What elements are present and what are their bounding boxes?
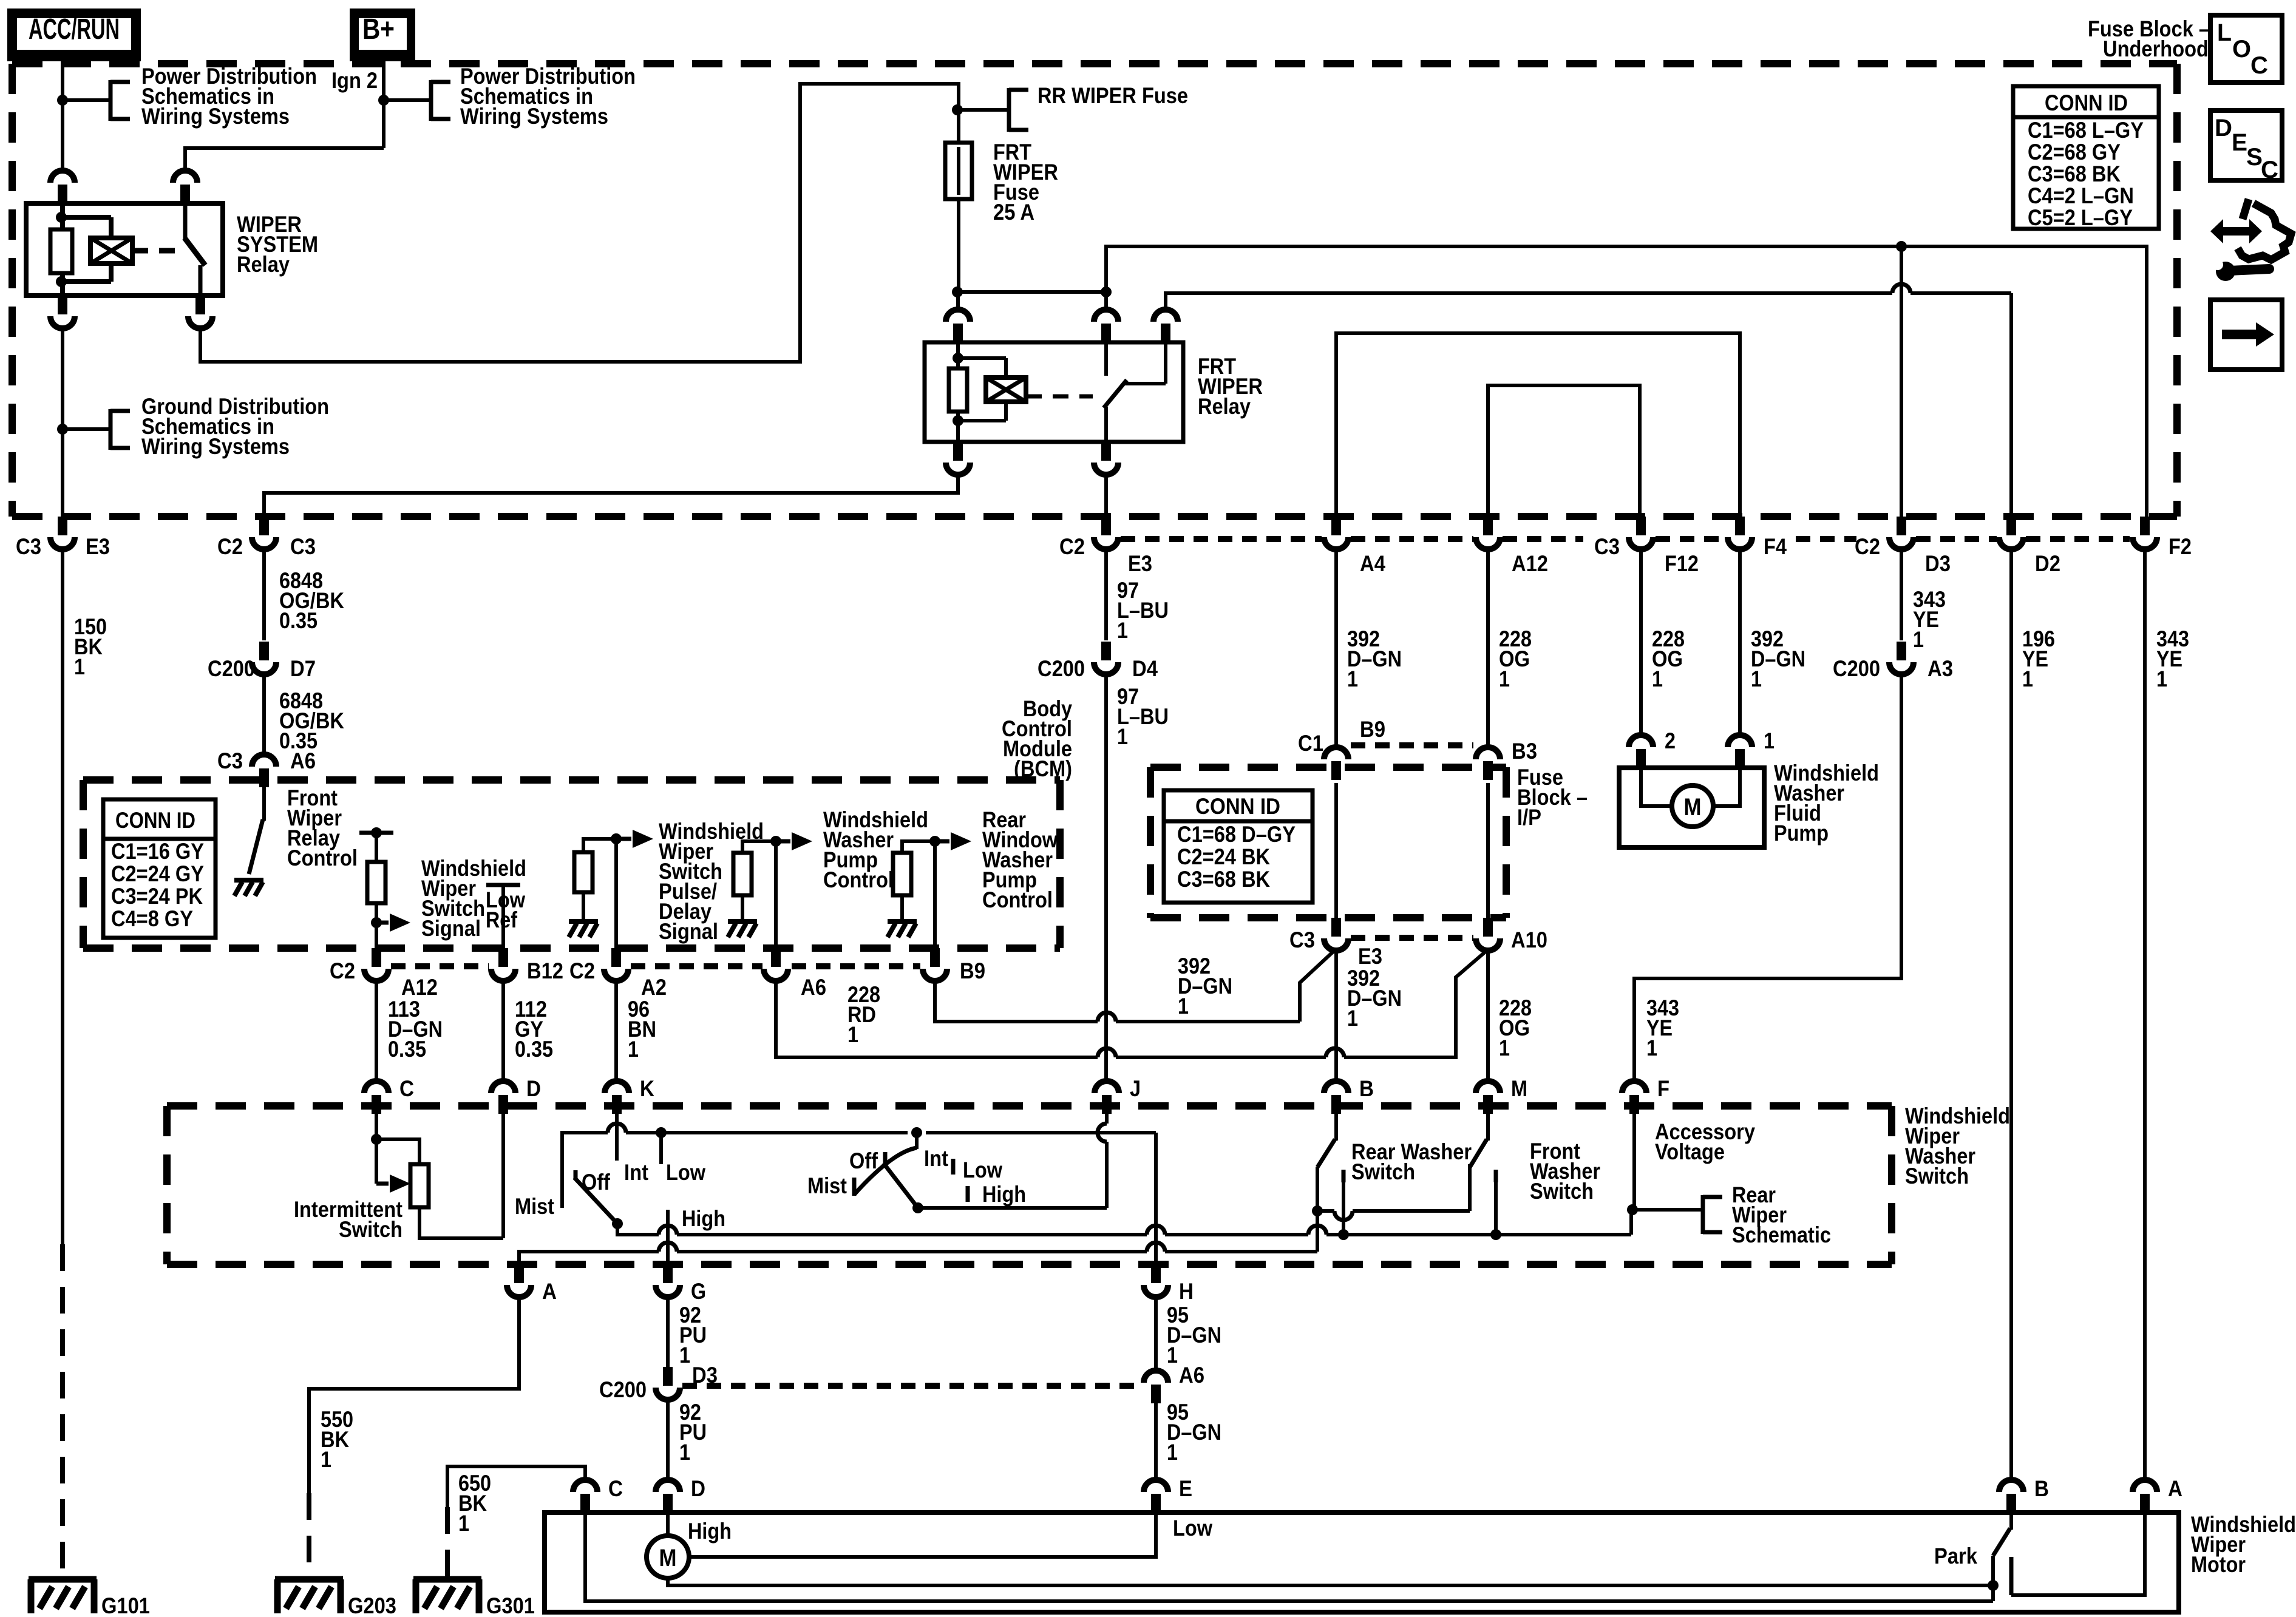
contact High right group — [966, 1186, 970, 1202]
svg-text:G101: G101 — [101, 1593, 150, 1617]
relay FRT WIPER Relay box — [925, 342, 1183, 442]
wire tap to RR WIPER bracket — [957, 108, 1009, 112]
label C3 at BCM entry — [217, 748, 243, 773]
dashed actuator link WIPER SYSTEM relay — [132, 248, 180, 254]
svg-text:C4=8 GY: C4=8 GY — [111, 906, 193, 931]
label C3 right — [290, 534, 316, 559]
wire hop railA over High — [659, 1242, 677, 1252]
node ground distribution tap — [57, 424, 68, 435]
label 343 YE 1 at F riser — [1646, 995, 1679, 1060]
label 97 L-BU 1 upper — [1117, 578, 1169, 643]
svg-text:A6: A6 — [801, 975, 826, 1000]
label B9 at IP — [1360, 717, 1385, 742]
ground G301 — [413, 1579, 481, 1613]
connector C motor — [573, 1480, 597, 1513]
wire F accessory voltage drop — [1632, 1114, 1636, 1208]
connector M wiper switch — [1476, 1081, 1500, 1114]
switch Front Washer Switch — [1470, 1114, 1488, 1167]
svg-text:Signal: Signal — [421, 916, 481, 941]
arrow intermittent wiper arm — [376, 1175, 410, 1193]
wire Ign2 to relay coil pin — [185, 148, 384, 169]
wire B3 through IP — [1486, 783, 1490, 918]
connector pin FRT WIPER relay output — [1094, 442, 1118, 477]
wire relay ground drop — [61, 331, 64, 517]
svg-text:1: 1 — [847, 1022, 858, 1047]
wire A to park contact — [2011, 1513, 2145, 1595]
label pin 1 — [1764, 728, 1775, 753]
dotted row line F4-C2D3 — [1796, 536, 1856, 542]
svg-text:D3: D3 — [1925, 551, 1951, 576]
label E3 at IP out — [1358, 944, 1382, 969]
wire A2 to pulse tap — [614, 839, 618, 962]
label E3 — [86, 534, 110, 559]
svg-text:E3: E3 — [1358, 944, 1382, 969]
label WIPER SYSTEM Relay — [237, 212, 318, 277]
svg-text:C1=68 L–GY: C1=68 L–GY — [2028, 118, 2144, 143]
svg-text:High: High — [682, 1206, 725, 1231]
connector C2/A12 BCM — [364, 948, 389, 983]
wire B9 to rear washer tap — [933, 841, 937, 962]
label C200 at D3 lower — [599, 1377, 647, 1402]
contact front washer fixed — [1494, 1170, 1498, 1235]
dashed actuator link FRT WIPER relay — [1026, 395, 1093, 399]
connector A12 — [1476, 517, 1500, 552]
label 228 RD 1 — [847, 982, 880, 1047]
reference bracket Ground Distribution — [110, 409, 130, 450]
label B9 BCM out — [960, 958, 985, 983]
svg-text:Pump: Pump — [1774, 821, 1829, 846]
wire fuse output to relay common — [957, 290, 1106, 294]
svg-text:B9: B9 — [1360, 717, 1385, 742]
svg-text:Mist: Mist — [807, 1173, 847, 1198]
svg-text:E3: E3 — [1128, 551, 1152, 576]
label Front Wiper Relay Control — [287, 785, 358, 870]
wire High contact left group — [666, 1210, 670, 1264]
svg-text:1: 1 — [2156, 666, 2167, 691]
svg-text:H: H — [1179, 1279, 1194, 1304]
wire 97 L-BU upper — [1104, 552, 1108, 640]
svg-text:D: D — [691, 1476, 705, 1501]
wire tap to ground bracket — [63, 427, 110, 431]
label 550 BK 1 — [321, 1407, 353, 1472]
wire fuse output — [957, 199, 960, 292]
wire Low contact left group — [659, 1133, 663, 1164]
wire tap to bracket right — [384, 98, 431, 102]
svg-text:A3: A3 — [1927, 656, 1953, 681]
connector C200/A3 — [1889, 642, 1914, 677]
label C3 left of E3 — [16, 534, 41, 559]
label Rear Washer Switch — [1351, 1139, 1472, 1184]
label Windshield Washer Fluid Pump — [1774, 761, 1879, 846]
svg-text:Off: Off — [849, 1148, 878, 1173]
connector C2/E3 row2 — [1094, 517, 1118, 552]
label Power Distribution Schematics in Wiring Systems right — [460, 64, 636, 129]
svg-text:Signal: Signal — [659, 919, 718, 944]
svg-text:F2: F2 — [2169, 534, 2192, 559]
label Int left group — [624, 1160, 648, 1185]
svg-text:C1=68 D–GY: C1=68 D–GY — [1177, 822, 1296, 847]
dotted row line A12-C3F12 — [1503, 536, 1583, 542]
svg-text:C3=68 BK: C3=68 BK — [1177, 867, 1270, 892]
svg-text:B: B — [2034, 1476, 2049, 1501]
svg-text:Low: Low — [1173, 1516, 1212, 1541]
label 92 PU 1 upper — [679, 1303, 707, 1368]
label M — [1511, 1076, 1527, 1101]
svg-text:Switch: Switch — [1530, 1179, 1594, 1204]
svg-text:Motor: Motor — [2191, 1552, 2246, 1577]
coil element in WIPER SYSTEM relay — [90, 238, 132, 263]
coil element in FRT WIPER relay — [986, 378, 1026, 402]
svg-text:M: M — [1511, 1076, 1527, 1101]
svg-text:C3=24 PK: C3=24 PK — [111, 884, 203, 909]
label Ground Distribution Schematics in Wiring Systems — [141, 394, 329, 459]
fuse block IP dashed box — [1150, 767, 1506, 918]
svg-text:E: E — [2232, 129, 2247, 156]
wire FRT relay coil loop — [958, 342, 1006, 442]
potentiometer intermittent switch — [376, 1139, 503, 1238]
label C200 at D4 — [1038, 656, 1085, 681]
svg-text:1: 1 — [1117, 618, 1128, 643]
label D7 — [290, 656, 316, 681]
wire A4 to C1/B9 392 D-GN — [1334, 552, 1338, 746]
svg-text:Ign 2: Ign 2 — [331, 68, 378, 93]
svg-text:C1=16 GY: C1=16 GY — [111, 839, 204, 864]
table CONN ID IP — [1164, 790, 1313, 903]
label C2 at A12 BCM — [330, 958, 355, 983]
label D at wiper switch — [491, 1076, 541, 1114]
label Low Ref — [486, 887, 525, 932]
svg-text:0.35: 0.35 — [388, 1037, 426, 1062]
wire 96 BN to K — [614, 983, 618, 1079]
svg-text:High: High — [982, 1182, 1026, 1207]
wire A12 to B3 228 OG — [1486, 552, 1490, 746]
wire rear washer out down to railA — [1316, 1211, 1319, 1252]
connector B12 BCM — [491, 948, 515, 983]
wire 95 D-GN H to A6 — [1154, 1300, 1158, 1369]
connector F2 — [2133, 517, 2157, 552]
resistor in WIPER SYSTEM relay — [50, 229, 72, 273]
svg-text:ACC/RUN: ACC/RUN — [29, 13, 120, 46]
svg-text:1: 1 — [2022, 666, 2033, 691]
wire rail A output — [519, 1252, 1317, 1264]
node rear washer contact to railmid — [1338, 1229, 1349, 1240]
module BCM dashed box — [83, 780, 1060, 948]
node FRT coil loop bottom — [953, 415, 963, 426]
wire 550 BK A to G203 — [309, 1300, 519, 1579]
label pin 2 — [1665, 728, 1676, 753]
label C2 at D3 — [1855, 534, 1880, 559]
connector D motor — [656, 1478, 680, 1513]
connector C2/A2 BCM — [604, 948, 628, 983]
wire ACC/RUN feed — [61, 61, 64, 169]
wire hop rail1 over rear washer contact — [1334, 1211, 1353, 1220]
connector E motor — [1144, 1478, 1168, 1513]
svg-text:A: A — [2168, 1476, 2182, 1501]
node D3 feed tap — [1896, 241, 1907, 252]
connector K wiper switch — [605, 1081, 629, 1114]
label F — [1657, 1076, 1669, 1101]
label D3 row2 — [1925, 551, 1951, 576]
wire 228 RD A6 to A10 path — [776, 951, 1486, 1057]
wire 150 BK — [61, 552, 64, 1579]
label C3 at F12 — [1594, 534, 1620, 559]
connector pin WIPER SYSTEM relay switch common — [173, 171, 197, 203]
arrow Windshield Wiper Switch Pulse/Delay Signal — [616, 830, 653, 848]
reference bracket Rear Wiper Schematic — [1703, 1195, 1722, 1234]
label 96 BN 1 — [628, 997, 656, 1062]
svg-text:C200: C200 — [1038, 656, 1085, 681]
label 650 BK 1 — [458, 1471, 491, 1536]
svg-text:B3: B3 — [1512, 739, 1537, 764]
connector C1/B9 into fuse block IP — [1324, 747, 1348, 780]
wire hop railmid over H — [1147, 1225, 1165, 1235]
svg-text:C2: C2 — [330, 958, 355, 983]
svg-text:Control: Control — [823, 867, 894, 892]
dotted row line BCM — [391, 963, 920, 969]
label C200 at A3 — [1833, 656, 1880, 681]
bridge wire A4-F4 — [1336, 333, 1740, 517]
label C1 — [1298, 731, 1323, 756]
svg-text:1: 1 — [1499, 1036, 1510, 1060]
svg-text:C3: C3 — [1594, 534, 1620, 559]
label FRT WIPER Fuse 25 A — [993, 140, 1058, 225]
node left blade contact — [612, 1218, 623, 1229]
label 228 OG 1 at A12 — [1499, 626, 1532, 691]
reference bracket Power Distribution right — [431, 80, 450, 121]
svg-text:K: K — [640, 1076, 654, 1101]
contact Low right group — [951, 1159, 956, 1175]
switch blade Off left group — [574, 1170, 617, 1224]
svg-text:E3: E3 — [86, 534, 110, 559]
node ACC/RUN tap — [57, 95, 68, 106]
svg-text:C: C — [2261, 157, 2278, 183]
connector B3 into fuse block IP — [1476, 747, 1500, 780]
svg-text:I/P: I/P — [1517, 805, 1541, 830]
wire motor low to E — [689, 1513, 1156, 1557]
wire hop railmid over High — [659, 1225, 677, 1235]
switch Front Wiper Relay Control in BCM — [234, 787, 264, 896]
label 150 BK 1 — [74, 614, 107, 679]
label D3 lower — [692, 1363, 718, 1388]
connector D2 — [1999, 517, 2023, 552]
svg-text:B12: B12 — [527, 958, 563, 983]
svg-text:Switch: Switch — [1905, 1164, 1969, 1188]
wire A12 feed riser to F2 — [1106, 246, 2147, 517]
svg-text:1: 1 — [74, 654, 85, 679]
connector B wiper switch — [1324, 1081, 1348, 1114]
svg-text:RR WIPER Fuse: RR WIPER Fuse — [1038, 83, 1188, 108]
svg-text:E: E — [1179, 1476, 1192, 1501]
label G203 — [348, 1593, 396, 1617]
connector A6 BCM — [764, 948, 788, 983]
resistor in FRT WIPER relay — [949, 368, 967, 412]
dotted connector row line 1822-2201 — [1121, 536, 1322, 542]
label F2 — [2169, 534, 2192, 559]
svg-text:CONN ID: CONN ID — [2045, 90, 2128, 115]
label 113 D-GN 0.35 — [388, 997, 443, 1062]
label 343 YE 1 upper — [1913, 587, 1946, 652]
label 343 YE 1 at F2 — [2156, 626, 2189, 691]
wire hop 228RD over 97LBU — [1098, 1048, 1116, 1057]
label Rear Wiper Schematic — [1732, 1182, 1831, 1247]
svg-text:A2: A2 — [641, 975, 667, 1000]
svg-text:Control: Control — [287, 846, 358, 870]
motor symbol M wiper — [647, 1536, 689, 1578]
wire 650 BK to G301 — [447, 1466, 585, 1579]
wire 343 YE upper — [1900, 552, 1903, 640]
arrow Windshield Washer Pump Control — [776, 832, 812, 850]
connector pin WIPER SYSTEM relay ground — [50, 296, 75, 331]
wire 113 D-GN to C — [375, 983, 378, 1079]
svg-text:D7: D7 — [290, 656, 316, 681]
wire FRT relay output to C2/E3 — [1104, 477, 1108, 517]
connector pin WIPER SYSTEM relay coil+ — [50, 171, 75, 203]
resistor pulse delay branch in BCM — [569, 839, 616, 937]
svg-text:1: 1 — [458, 1511, 469, 1536]
wire hop J over top rail — [1098, 1124, 1107, 1142]
icon LOC box — [2210, 15, 2282, 83]
svg-text:Off: Off — [582, 1170, 611, 1195]
label Windshield Wiper Washer Switch — [1905, 1103, 2010, 1188]
label High motor — [688, 1519, 732, 1544]
label Low motor — [1173, 1516, 1212, 1541]
node B+ tap — [378, 95, 389, 106]
node washer pump control tap — [770, 836, 781, 847]
svg-text:0.35: 0.35 — [279, 608, 318, 633]
label C motor — [608, 1476, 623, 1501]
wire right blade to J riser — [918, 1114, 1107, 1208]
connector C200/D4 — [1094, 642, 1118, 677]
label 6848 OG/BK 0.35 lower — [279, 688, 344, 753]
label Park — [1934, 1544, 1977, 1568]
motor Windshield Wiper Motor box — [545, 1513, 2179, 1612]
label A6 at BCM entry — [290, 748, 316, 773]
wire A6 to washer pump tap — [774, 841, 778, 962]
svg-text:C2=24 BK: C2=24 BK — [1177, 844, 1270, 869]
wire top rail left switch — [562, 1133, 1156, 1208]
label H below switch — [1179, 1279, 1194, 1304]
svg-text:C5=2 L–GY: C5=2 L–GY — [2028, 205, 2133, 230]
switch in WIPER SYSTEM relay — [185, 203, 205, 296]
label 196 YE 1 — [2022, 626, 2055, 691]
wire 392 D-GN B9 to C3/E3 path — [935, 951, 1334, 1022]
wire hop K over rail — [608, 1124, 626, 1133]
svg-text:Switch: Switch — [1351, 1159, 1415, 1184]
svg-text:1: 1 — [1347, 1006, 1358, 1031]
connector pump pin 1 — [1728, 735, 1752, 768]
wire railmid to F riser — [1496, 1210, 1631, 1235]
label Fuse Block - Underhood — [2088, 16, 2210, 61]
connector C200/D3 lower — [656, 1367, 680, 1402]
label G101 — [101, 1593, 150, 1617]
svg-text:Low: Low — [666, 1160, 705, 1185]
wire 112 GY to D — [501, 983, 505, 1079]
label RR WIPER Fuse — [1038, 83, 1188, 108]
svg-text:D: D — [2215, 115, 2232, 141]
resistor rear window washer branch in BCM — [888, 841, 935, 937]
node rear washer blade out — [1312, 1205, 1323, 1216]
wire D into box — [501, 1114, 505, 1238]
label Front Washer Switch — [1530, 1139, 1600, 1204]
label A6 harness — [1179, 1363, 1204, 1388]
svg-text:C3: C3 — [290, 534, 316, 559]
node fuse output junction — [952, 286, 963, 297]
label Fuse Block - I/P — [1517, 765, 1588, 830]
svg-text:G203: G203 — [348, 1593, 396, 1617]
label 95 D-GN 1 lower — [1167, 1400, 1221, 1465]
svg-text:A4: A4 — [1360, 551, 1385, 576]
label High left group — [682, 1206, 725, 1231]
pump internal wires — [1641, 768, 1740, 806]
svg-text:G: G — [691, 1279, 706, 1304]
contact park fixed — [2009, 1557, 2014, 1595]
label A6 BCM out — [801, 975, 826, 1000]
Fuse Block - Underhood dashed box — [12, 64, 2177, 517]
svg-text:C4=2 L–GN: C4=2 L–GN — [2028, 183, 2134, 208]
svg-text:1: 1 — [628, 1037, 639, 1062]
wire K contact Int — [615, 1114, 619, 1161]
svg-text:F: F — [1657, 1076, 1669, 1101]
svg-text:D: D — [526, 1076, 541, 1101]
wire tap to rear wiper bracket — [1632, 1208, 1703, 1212]
label B — [1359, 1076, 1374, 1101]
svg-text:C3=68 BK: C3=68 BK — [2028, 161, 2121, 186]
label B3 — [1512, 739, 1537, 764]
label C at wiper switch — [364, 1076, 414, 1114]
svg-text:CONN ID: CONN ID — [1195, 794, 1280, 819]
wire 92 PU G to C200 D3 — [666, 1300, 670, 1367]
contact Mist right group — [852, 1178, 857, 1196]
wire hop railA over H — [1147, 1242, 1165, 1252]
reference bracket RR WIPER Fuse — [1009, 88, 1028, 132]
svg-text:M: M — [1684, 794, 1702, 821]
wire C to park common — [585, 1513, 1993, 1601]
svg-text:C1: C1 — [1298, 731, 1323, 756]
switch right group curve blade — [854, 1148, 918, 1208]
label Windshield Wiper Motor — [2191, 1512, 2296, 1577]
connector C3/E3 at IP bottom — [1324, 918, 1348, 953]
icon wrench and arrows — [2210, 199, 2291, 281]
svg-text:Int: Int — [924, 1146, 948, 1171]
wire relay output to FRT WIPER fuse — [200, 84, 959, 362]
svg-text:Schematic: Schematic — [1732, 1222, 1831, 1247]
wire rail1 rear to front washer — [1317, 1164, 1470, 1211]
svg-text:C200: C200 — [208, 656, 255, 681]
wire 343 YE to motor A — [2143, 552, 2147, 1478]
svg-text:B9: B9 — [960, 958, 985, 983]
svg-text:1: 1 — [1751, 666, 1762, 691]
svg-text:C2: C2 — [1059, 534, 1085, 559]
svg-text:C2: C2 — [217, 534, 243, 559]
svg-text:C3: C3 — [1289, 927, 1315, 952]
wire hop 392DGN over 97LBU — [1098, 1012, 1116, 1022]
svg-text:1: 1 — [1117, 724, 1128, 749]
label A3 — [1927, 656, 1953, 681]
svg-text:Mist: Mist — [515, 1194, 554, 1219]
node rear window washer tap — [929, 836, 940, 847]
svg-text:1: 1 — [1178, 994, 1189, 1019]
wire D to motor M high — [666, 1513, 670, 1536]
wire 95 D-GN to E motor — [1154, 1403, 1158, 1478]
wire FRT relay coil- to C2/C3 — [264, 477, 958, 517]
motor symbol M washer pump — [1672, 785, 1713, 827]
node park junction — [1988, 1580, 1999, 1591]
connector J wiper switch — [1095, 1081, 1119, 1114]
svg-text:2: 2 — [1665, 728, 1676, 753]
wire C1B9 through IP — [1334, 783, 1338, 918]
connector A4 — [1324, 517, 1348, 552]
connector C2/D3 — [1889, 517, 1914, 552]
